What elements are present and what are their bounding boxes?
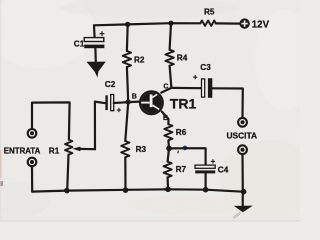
svg-text:V: V	[263, 19, 270, 30]
wire: R6 to emitter node	[167, 140, 170, 148]
wire: emitter node to C4	[169, 148, 206, 165]
junction dot: R7/ground rail	[165, 187, 171, 193]
wire: rail to R4	[170, 23, 171, 50]
wire: R2 to base node	[127, 67, 128, 102]
wire: collector node to C3	[171, 87, 201, 89]
wire: C2 to base junction to TR1 base	[114, 102, 139, 103]
svg-text:R2: R2	[134, 56, 145, 65]
wire: C4 bottom to ground rail	[205, 173, 207, 189]
junction dot: R1/ground rail	[64, 188, 70, 194]
wire: bottom ground rail	[32, 189, 243, 191]
resistor R7	[164, 162, 172, 178]
wiper arrow of R1	[79, 148, 95, 151]
capacitor C3 (+ left hollow plate)	[202, 79, 205, 97]
svg-text:USCITA: USCITA	[227, 131, 258, 141]
wire: R5 to +12V terminal	[216, 22, 240, 24]
terminal USCITA bottom	[238, 145, 247, 154]
terminal USCITA top	[238, 118, 247, 127]
junction dot: USCITA/ground rail	[241, 189, 247, 195]
capacitor C2 (left plate solid, right hollow)	[105, 95, 107, 110]
node marker (blue dot)	[183, 146, 188, 151]
wire: rail down to C1	[93, 25, 96, 37]
wire: +12V top rail from C1 stem to R5	[94, 23, 200, 25]
terminal +12V (power)	[239, 18, 249, 28]
resistor R4	[165, 50, 173, 66]
ground (main, bottom right)	[235, 206, 251, 212]
svg-text:B: B	[132, 94, 137, 101]
resistor R5	[200, 21, 216, 26]
svg-text:R6: R6	[176, 128, 187, 137]
wire: USCITA bottom to ground rail	[241, 154, 244, 191]
svg-text:R7: R7	[176, 165, 187, 174]
wire: R4 to collector corner, into TR1	[161, 66, 171, 93]
junction dot: rail/R2	[125, 22, 130, 27]
svg-text:R1: R1	[49, 146, 60, 155]
wire: R3 to ground rail	[124, 157, 126, 190]
wire: rail to main ground	[242, 192, 244, 206]
svg-text:ENTRATA: ENTRATA	[4, 146, 41, 155]
wire: R1 bottom to ground rail	[67, 155, 68, 191]
wire: R7 to ground rail	[167, 177, 170, 189]
svg-text:C2: C2	[105, 80, 116, 89]
wire: base node down to R3	[125, 102, 128, 141]
junction dot: base node	[126, 99, 131, 104]
wire: emitter node down to R7	[168, 148, 169, 161]
svg-text:R5: R5	[204, 8, 215, 17]
wire: ENTRATA top terminal up and over to R1 top	[32, 102, 70, 139]
resistor R3	[121, 141, 129, 157]
wire: C3 right to USCITA top terminal	[212, 88, 243, 117]
svg-text:R3: R3	[136, 145, 147, 154]
junction dot: C4/ground rail	[203, 187, 209, 193]
svg-text:C3: C3	[200, 63, 211, 72]
ground (below C1)	[88, 62, 105, 76]
resistor R1 (potentiometer)	[65, 140, 72, 155]
stray tick mark	[177, 151, 180, 154]
resistor R2	[123, 51, 131, 67]
svg-text:R4: R4	[177, 53, 188, 62]
polarity mark C2	[117, 108, 121, 112]
svg-text:TR1: TR1	[170, 96, 197, 112]
wire: wiper up to C2	[95, 102, 106, 150]
transistor TR1 (NPN, inverse-filled symbol)	[139, 91, 163, 115]
svg-text:C1: C1	[74, 39, 85, 48]
svg-text:C4: C4	[218, 165, 229, 174]
wire: rail to R2	[126, 24, 129, 51]
wire: TR1 emitter down to R6	[162, 112, 169, 125]
capacitor C1 (electrolytic, + top plate hollow)	[84, 38, 104, 42]
capacitor C4 (+ top hollow plate)	[195, 165, 215, 168]
junction dot: rail/R4	[168, 21, 173, 26]
junction dot: emitter node	[166, 146, 172, 152]
terminal ENTRATA top	[28, 129, 37, 138]
wire: C1 to ground	[94, 48, 97, 62]
resistor R6	[164, 124, 172, 140]
svg-text:12: 12	[252, 19, 263, 30]
terminal ENTRATA bottom	[28, 158, 37, 167]
junction dot: R3/ground rail	[123, 187, 129, 193]
wire: ENTRATA bottom terminal down to ground rail	[31, 167, 33, 192]
